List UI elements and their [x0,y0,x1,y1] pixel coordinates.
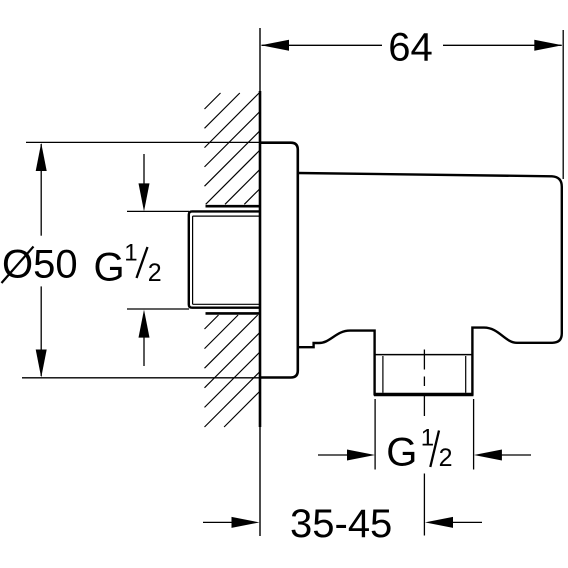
nozzle centerline [423,350,425,418]
wall surface line [259,28,261,536]
svg-text:G: G [94,246,125,290]
wall hatching top [205,93,261,204]
outlet thread G1/2 left arrow [318,454,348,456]
wall hatching bottom [205,315,261,427]
outlet thread G1/2 right arrow [501,454,531,456]
dimension 64 arrowheads [261,40,289,51]
wall-side threaded connector G1/2 [189,211,260,307]
elbow body outline [298,173,562,394]
outlet end face [374,393,473,397]
dimension D50 arrowheads [36,143,47,171]
outlet thread root lines [382,356,384,393]
wall thread G1/2 upper arrow [143,154,145,186]
dimension 35-45 left arrow [203,521,232,523]
wall cut boundary top [206,205,261,208]
svg-text:O50: O50 [2,243,78,287]
wall thread G1/2 lower arrow [143,336,145,366]
svg-text:1: 1 [124,239,137,266]
outlet thread G1/2 extension lines [374,399,376,470]
wall thread G1/2 extension lines [127,210,189,212]
dimension D50: extension lines [26,141,260,143]
svg-text:64: 64 [388,26,433,70]
dimension D50 line [40,144,42,236]
dimension 64 line [262,44,383,46]
dimension 35-45 right arrow [452,521,482,523]
svg-text:G: G [386,431,417,475]
thread root lines of connector [193,216,260,304]
svg-text:1: 1 [421,424,434,451]
outlet nozzle thread start line [375,354,473,356]
svg-text:35-45: 35-45 [290,502,392,546]
svg-text:2: 2 [439,444,453,472]
flange (wall escutcheon) [260,143,298,378]
wall cut boundary bottom [206,312,261,315]
svg-text:2: 2 [148,259,162,287]
dimension 64: right extension line [562,30,564,179]
